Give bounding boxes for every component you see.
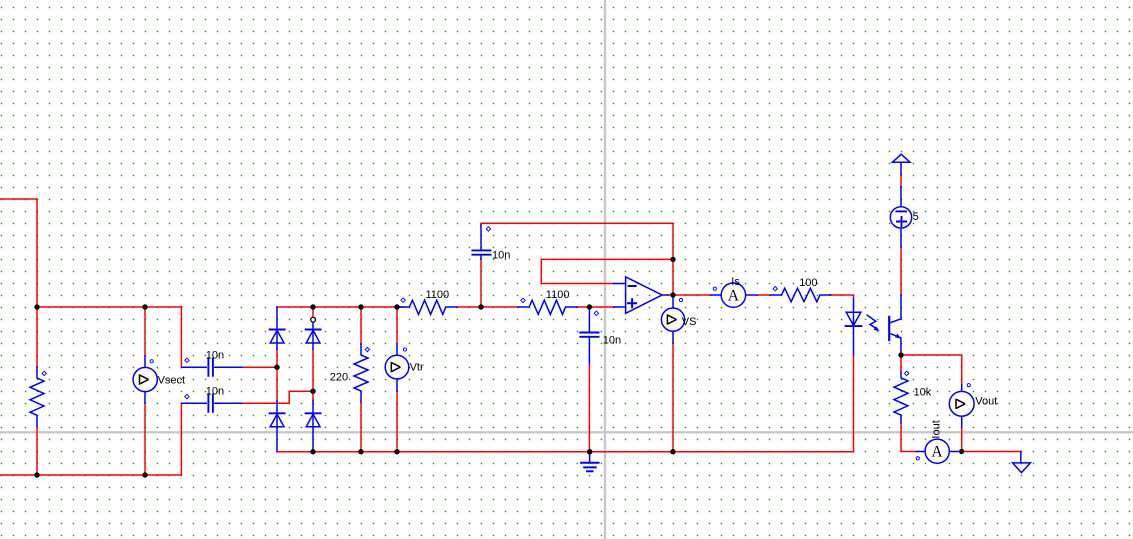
resistor R4 100 (horizontal) xyxy=(771,288,831,301)
wire R3 to op-amp plus input xyxy=(577,306,614,308)
marker diamond R1 xyxy=(42,371,46,375)
wire Vtr bottom xyxy=(396,391,398,452)
junction node at R1 top xyxy=(34,304,39,309)
ground symbol right lead xyxy=(1020,452,1022,463)
wire Vout bottom to Iout node xyxy=(961,427,963,452)
svg-text:10n: 10n xyxy=(206,349,224,361)
svg-text:Vtr: Vtr xyxy=(410,362,424,374)
resistor R6 10k (vertical) xyxy=(894,372,908,423)
transistor Q1 base bar xyxy=(888,317,890,340)
page boundary horizontal gray line xyxy=(0,431,1133,433)
battery B1 top lead xyxy=(900,187,902,212)
ammeter Iout leads xyxy=(917,451,960,453)
VS arrow glyph xyxy=(667,314,676,324)
wire down from capacitor C2 to bottom rail xyxy=(180,403,182,475)
voltage source VS leads xyxy=(672,297,674,343)
diode D3 top lead xyxy=(276,401,278,452)
page boundary vertical gray line xyxy=(604,0,606,539)
ammeter Is circle xyxy=(721,283,745,307)
svg-text:10n: 10n xyxy=(603,335,621,347)
resistor R1 (left, vertical at x=37) xyxy=(30,367,44,426)
svg-text:10k: 10k xyxy=(914,387,932,399)
wire bus y=307 left section xyxy=(37,306,182,308)
power arrow up symbol xyxy=(892,154,910,162)
Vsect arrow glyph xyxy=(140,374,149,384)
junction node Vtr top xyxy=(394,304,399,309)
diode D3 cathode bar xyxy=(270,412,285,414)
svg-text:Is: Is xyxy=(731,276,740,288)
battery B1 minus bar xyxy=(896,210,906,212)
diode D2 cathode bar xyxy=(306,329,321,331)
junction node 220 bottom xyxy=(358,449,363,454)
wire right diode branch mid segment xyxy=(312,349,314,401)
wire 10k bottom corner to Iout ammeter xyxy=(901,423,917,452)
wire between R2 and R3 xyxy=(457,306,519,308)
wire C2 right with jog to bridge node B xyxy=(242,391,313,403)
ground symbol left bars xyxy=(581,463,599,472)
marker circle Vout xyxy=(967,384,970,387)
ammeter Is leads xyxy=(711,294,757,296)
junction node ground tap xyxy=(587,449,592,454)
marker diamond R3 xyxy=(401,298,405,302)
voltage source Vtr leads xyxy=(396,344,398,391)
svg-text:5: 5 xyxy=(913,211,919,223)
svg-text:10n: 10n xyxy=(206,386,224,398)
wire emitter node to Vout xyxy=(901,355,962,385)
transistor Q1 collector lead xyxy=(890,295,901,323)
LED light arrow head xyxy=(874,326,880,331)
marker diamond C4 xyxy=(594,311,598,315)
junction node bridge right top xyxy=(310,304,315,309)
wire battery to transistor collector xyxy=(900,247,902,295)
Vout arrow glyph xyxy=(956,399,965,409)
marker diamond R4 xyxy=(773,287,777,291)
open pin marker on D2 xyxy=(311,317,316,322)
LED D5 anode lead xyxy=(853,299,855,355)
wire Iout node to ground right xyxy=(962,451,1021,453)
junction node Vtr bottom xyxy=(394,449,399,454)
capacitor C3 plates xyxy=(472,250,490,254)
ground symbol left (at bridge bottom) stub xyxy=(589,452,591,463)
wire LED cathode down to bottom rail xyxy=(853,354,855,452)
resistor R5 1100 (second, horizontal) xyxy=(518,300,577,314)
wire C3 branch lower red part xyxy=(480,259,482,307)
capacitor C2 (10n lower) leads xyxy=(181,402,242,404)
diode D1 triangle xyxy=(270,330,284,343)
marker diamond R5 xyxy=(521,298,525,302)
capacitor C1 (10n upper) leads xyxy=(181,366,242,368)
resistor R3 1100 (first, horizontal) xyxy=(400,300,457,314)
op-amp U1 plus sign xyxy=(628,299,636,307)
transistor Q1 emitter lead xyxy=(890,333,901,351)
bottom left rail xyxy=(0,474,181,476)
wire from left edge into resistor R1 branch xyxy=(0,199,37,367)
junction node 220 top xyxy=(358,304,363,309)
svg-text:A: A xyxy=(728,287,740,304)
wire feedback to op-amp minus input xyxy=(541,259,673,283)
LED D5 cathode bar xyxy=(846,325,862,327)
diode D4 top lead xyxy=(312,401,314,452)
wire 10k resistor top xyxy=(900,355,902,372)
marker circle Vtr xyxy=(403,348,406,351)
marker diamond C2 xyxy=(185,394,189,398)
wire VS bottom to bottom rail xyxy=(672,343,674,452)
bridge bottom rail to LED xyxy=(277,451,854,453)
marker diamond C1 xyxy=(185,358,189,362)
svg-text:220: 220 xyxy=(330,372,348,384)
junction node Vsect bottom xyxy=(142,472,147,477)
svg-text:A: A xyxy=(931,444,943,461)
marker diamond R6 10k xyxy=(905,371,909,375)
svg-text:Vout: Vout xyxy=(975,395,997,407)
junction node bridge right bottom xyxy=(310,449,315,454)
junction node Iout right xyxy=(959,449,964,454)
junction node emitter xyxy=(898,352,903,357)
wire battery branch upper red segment xyxy=(900,175,902,187)
marker circle Iout xyxy=(916,457,919,460)
voltage source Vtr circle xyxy=(385,355,409,379)
junction node bridge right mid xyxy=(310,389,315,394)
battery B1 circle xyxy=(890,207,911,228)
junction node R1 bottom xyxy=(34,472,39,477)
capacitor C4 plates xyxy=(580,333,598,337)
diode D3 triangle xyxy=(270,414,284,427)
power arrow lead xyxy=(900,162,902,174)
junction node C4 tap xyxy=(587,304,592,309)
wire left diode branch mid segment xyxy=(276,349,278,401)
wire Is to R4 xyxy=(757,294,771,296)
voltmeter Vout leads xyxy=(961,385,963,427)
op-amp U1 minus sign xyxy=(629,285,636,287)
ground symbol right triangle xyxy=(1013,463,1031,473)
capacitor C3 (10n top) leads xyxy=(480,225,482,259)
marker circle Vsect xyxy=(150,360,153,363)
voltage source Vsect leads xyxy=(144,356,146,403)
wire C1 right to bridge node xyxy=(242,366,277,368)
diode D4 cathode bar xyxy=(306,412,321,414)
diode D4 triangle xyxy=(306,414,320,427)
wire top feedback rail and right drop xyxy=(481,223,673,295)
marker circle Is xyxy=(713,287,716,290)
battery B1 bottom lead xyxy=(900,228,902,246)
op-amp U1 output lead xyxy=(662,294,668,296)
diode D2 triangle xyxy=(306,330,320,343)
op-amp U1 minus input lead xyxy=(614,283,626,285)
op-amp U1 triangle xyxy=(626,277,662,314)
svg-text:Vsect: Vsect xyxy=(158,374,186,386)
wire op-amp output to Is xyxy=(668,294,711,296)
wire bus y=307 bridge to op-amp section xyxy=(277,306,403,308)
junction node VS bottom xyxy=(670,449,675,454)
capacitor C1 plates xyxy=(208,359,213,376)
Vtr arrow glyph xyxy=(391,362,400,372)
voltage source VS circle xyxy=(661,308,684,331)
wire emitter node short segment xyxy=(900,351,902,355)
wire down to capacitor C1 xyxy=(180,307,182,368)
marker circle VS xyxy=(679,299,682,302)
wire R4 to LED corner xyxy=(831,295,854,299)
voltage source Vsect circle xyxy=(133,367,157,391)
capacitor C4 lower red part xyxy=(588,365,590,452)
ammeter Iout circle xyxy=(925,439,949,463)
capacitor C2 plates xyxy=(208,395,213,412)
wire Vsect bottom xyxy=(144,403,146,475)
op-amp U1 plus input lead xyxy=(614,306,626,308)
marker diamond C3 xyxy=(486,227,490,231)
wire R1 bottom lead to bottom rail xyxy=(36,426,38,475)
svg-text:10n: 10n xyxy=(492,249,510,261)
voltmeter Vout circle xyxy=(949,391,974,416)
capacitor C4 (10n mid) leads xyxy=(588,307,590,365)
marker diamond R2 220 xyxy=(365,347,369,351)
resistor R2 220 (vertical) xyxy=(354,344,368,402)
LED light arrow xyxy=(867,315,876,329)
diode D1 cathode bar xyxy=(270,329,285,331)
diode D1 top lead xyxy=(276,307,278,349)
wire 220 resistor bottom xyxy=(360,402,362,452)
svg-text:1100: 1100 xyxy=(426,289,450,301)
wire right diode branch upper segment xyxy=(312,307,314,318)
wire Vsect top xyxy=(144,307,146,356)
LED D5 triangle xyxy=(846,312,861,325)
junction node C3 tap xyxy=(478,304,483,309)
junction node Vsect top xyxy=(142,304,147,309)
junction node feedback tap xyxy=(670,257,675,262)
svg-text:100: 100 xyxy=(799,277,817,289)
transistor Q1 emitter arrow head xyxy=(895,334,901,339)
wire 220 resistor top xyxy=(360,307,362,344)
svg-text:1100: 1100 xyxy=(546,289,570,301)
wire Vtr top xyxy=(396,307,398,344)
junction node op-amp output xyxy=(670,292,675,297)
battery B1 plus sign xyxy=(897,217,906,226)
diode D2 top lead xyxy=(312,322,314,349)
junction node bridge left mid xyxy=(274,365,279,370)
svg-text:VS: VS xyxy=(682,316,697,328)
svg-text:Iout: Iout xyxy=(931,420,943,438)
